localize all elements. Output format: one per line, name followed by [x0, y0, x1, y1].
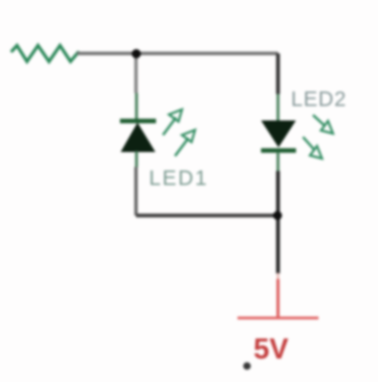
- label 5V: [254, 334, 289, 366]
- wire bottom horizontal: [136, 167, 278, 216]
- junction top: [132, 49, 141, 58]
- resistor R1: [12, 46, 78, 62]
- wire right vertical bottom (net): [276, 171, 280, 274]
- LED LED2 triangle: [262, 121, 295, 147]
- label LED2: [291, 88, 347, 111]
- LED1 emission arrow lower: [175, 130, 195, 156]
- wire left vertical (net): [134, 53, 137, 93]
- wire right vertical top (net): [276, 53, 280, 94]
- LED2 emission arrow upper: [313, 115, 333, 134]
- label LED1: [149, 167, 208, 190]
- LED LED1 pin bottom: [135, 151, 138, 167]
- LED LED1 triangle: [122, 124, 155, 152]
- svg-text:5V: 5V: [254, 334, 289, 366]
- stray dot artifact: [243, 362, 251, 370]
- LED LED1 cathode bar: [120, 119, 156, 124]
- svg-text:LED1: LED1: [149, 167, 208, 190]
- LED LED2 pin bottom: [277, 152, 280, 171]
- junction bottom: [273, 211, 282, 220]
- LED1 emission arrow upper: [163, 110, 182, 136]
- wire top horizontal: [77, 52, 278, 55]
- supply 5V rail bar: [238, 317, 319, 320]
- LED2 emission arrow lower: [303, 137, 322, 159]
- LED LED2 cathode bar: [261, 148, 296, 153]
- svg-text:LED2: LED2: [291, 88, 347, 111]
- supply 5V pin vertical: [277, 273, 279, 318]
- LED LED2 pin top: [277, 94, 280, 122]
- LED1 pin top: [135, 93, 138, 119]
